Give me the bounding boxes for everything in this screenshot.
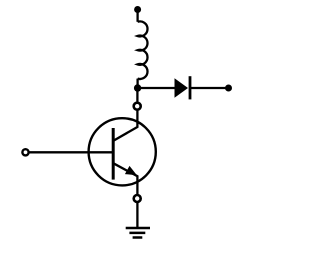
diode D1 cathode bar xyxy=(189,76,192,99)
node: left input open terminal xyxy=(22,149,28,155)
wire: junction to diode anode xyxy=(138,87,175,89)
wire: junction down to collector node circle xyxy=(136,88,138,102)
transistor Q1 envelope circle xyxy=(89,118,156,185)
transistor Q1 emitter arrow xyxy=(125,166,137,175)
wire: inductor to junction xyxy=(136,79,138,88)
wire: collector lead into transistor xyxy=(113,110,137,140)
node: top supply terminal dot xyxy=(134,6,141,13)
ground symbol xyxy=(126,228,150,238)
transistor Q1 emitter line xyxy=(113,163,137,194)
node: open circle on collector lead xyxy=(134,103,141,110)
diode D1 triangle xyxy=(175,78,189,98)
wire: emitter node to ground xyxy=(136,203,138,228)
inductor L1 xyxy=(138,21,148,79)
wire: top terminal to inductor xyxy=(136,10,138,22)
node: right output terminal dot xyxy=(225,85,232,92)
node: open circle on emitter lead xyxy=(134,195,141,202)
wire: input terminal to base xyxy=(30,151,114,153)
wire: diode cathode to right terminal xyxy=(190,87,226,89)
transistor Q1 base bar xyxy=(112,128,115,180)
node: junction dot (inductor/diode/collector) xyxy=(134,84,141,91)
